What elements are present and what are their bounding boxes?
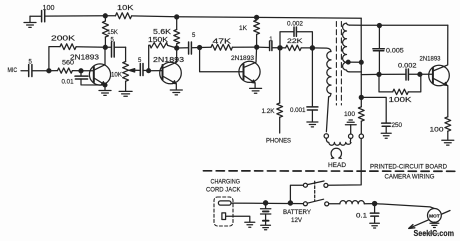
capacitor C5d (Q2 out, 5) — [177, 42, 200, 54]
svg-text:PHONES: PHONES — [266, 138, 292, 145]
node phones junction — [278, 46, 282, 50]
wire base to Q2 — [149, 70, 163, 72]
svg-text:100: 100 — [344, 111, 356, 118]
svg-text:2N1893: 2N1893 — [420, 56, 441, 63]
ground G2 Q1 emitter — [99, 85, 111, 95]
node Q2 collector — [175, 46, 179, 50]
svg-text:100K: 100K — [389, 97, 412, 104]
svg-text:47K: 47K — [213, 39, 232, 46]
jack sleeve lower — [222, 213, 226, 220]
resistor R560 (560) — [49, 68, 81, 73]
node tap at bus — [359, 60, 363, 64]
transformer T1 secondary winding — [343, 23, 350, 72]
wire rail drop to oscillator bus — [360, 18, 362, 107]
inductor L1 motor filter — [340, 201, 364, 204]
capacitor C5b (interstage, 5) — [105, 42, 125, 57]
svg-text:2N1893: 2N1893 — [153, 57, 184, 64]
resistor R15K (15K) collector load Q1 — [102, 16, 108, 48]
resistor R100a (100) bus to head — [358, 107, 364, 134]
wire node A to bus — [361, 73, 379, 75]
svg-text:0.002: 0.002 — [398, 63, 417, 70]
svg-text:CORD JACK: CORD JACK — [206, 186, 241, 193]
capacitor C1 (1) coupling — [257, 41, 280, 51]
svg-text:MIC: MIC — [8, 67, 18, 74]
svg-text:0.1: 0.1 — [356, 212, 368, 219]
capacitor C0.005 (0.005) — [373, 26, 384, 75]
node switch riser tap — [288, 201, 292, 205]
svg-text:560: 560 — [62, 60, 74, 67]
node A oscillator base network — [377, 72, 381, 76]
node 22K output — [310, 46, 314, 50]
wire jack sleeve to ground — [226, 216, 250, 222]
svg-text:HEAD: HEAD — [328, 162, 346, 169]
svg-text:5.6K: 5.6K — [153, 29, 171, 36]
terminal B head right — [349, 134, 353, 138]
wire G1 to C100 — [30, 15, 41, 17]
wire secondary top to oscillator line — [350, 24, 362, 26]
resistor R47K (47K) feedback Q3 — [200, 44, 257, 50]
ground G12 under 0.1 — [370, 223, 380, 228]
head gap symbol omega — [331, 148, 341, 158]
node Q4 base — [418, 72, 422, 76]
capacitor C5c (wiper coupling, 5) — [140, 64, 148, 76]
svg-text:PRINTED-CIRCUIT BOARD: PRINTED-CIRCUIT BOARD — [370, 164, 447, 171]
ground G4 Q2 emitter — [170, 90, 182, 95]
svg-text:250: 250 — [392, 122, 403, 129]
terminal A head left — [324, 134, 328, 138]
resistor R5.6K (5.6K) collector load Q2 — [174, 17, 180, 48]
wire secondary bottom end — [350, 71, 362, 73]
wire 22K output to transformer primary — [312, 48, 331, 52]
capacitor C100 (value 100) — [42, 11, 45, 22]
capacitor C250 (250) — [361, 97, 390, 132]
node 0.005 top — [377, 24, 381, 28]
svg-text:100: 100 — [43, 5, 55, 12]
switch S1b lower pole — [303, 199, 328, 206]
ground G13 motor — [430, 222, 439, 227]
node tap at winding — [346, 60, 350, 64]
ground G8 under 250 — [381, 133, 391, 138]
svg-text:0.002: 0.002 — [287, 21, 303, 28]
resistor R10K (10K) on rail — [116, 13, 132, 19]
jack plug upper — [218, 201, 231, 205]
svg-text:15K: 15K — [107, 29, 118, 36]
switch S1a upper pole — [303, 181, 328, 187]
svg-text:CAMERA WIRING: CAMERA WIRING — [385, 173, 435, 180]
capacitor C5a (MIC coupling, 5) — [29, 65, 49, 77]
resistor R1K (1K) collector load Q3 — [254, 17, 260, 47]
svg-text:MOT: MOT — [429, 213, 440, 219]
wire supply rail — [45, 15, 116, 17]
svg-text:10K: 10K — [117, 5, 134, 12]
svg-text:BATTERY: BATTERY — [283, 209, 312, 216]
transistor Q4 2N1893 — [420, 25, 449, 86]
wire riser to switch — [290, 185, 303, 203]
svg-text:12V: 12V — [291, 217, 303, 224]
capacitor C0.1 (0.1) — [370, 204, 379, 223]
transistor Q1 2N1893 — [81, 47, 111, 85]
capacitor C0.002b (0.002) to Q4 base — [379, 69, 420, 80]
svg-text:200K: 200K — [51, 36, 75, 43]
node Q1 collector — [103, 45, 107, 49]
node 250 branch — [359, 95, 363, 99]
motor MOT — [428, 209, 442, 223]
resistor R100b (100) Q4 emitter — [445, 85, 451, 139]
node Q1 emitter junction — [103, 83, 107, 87]
node rail-Q2 junction — [175, 15, 179, 19]
node rail-Q1 junction — [103, 14, 107, 18]
ground G5 Q3 emitter — [250, 88, 262, 93]
wire node to motor — [375, 204, 434, 209]
svg-text:0.001: 0.001 — [290, 107, 306, 114]
svg-text:1.2K: 1.2K — [262, 108, 276, 115]
wire primary bottom to head terminal — [326, 97, 328, 132]
resistor R22K (22K) — [280, 45, 312, 50]
svg-text:0.005: 0.005 — [386, 47, 404, 54]
jack dashed box CHARGING CORD JACK — [214, 197, 233, 226]
arrow through motor — [409, 211, 450, 229]
ground G10 jack — [245, 222, 255, 227]
svg-text:2N1893: 2N1893 — [70, 55, 99, 62]
wire oscillator top line — [361, 24, 448, 26]
node Q2 base — [147, 69, 151, 73]
transistor Q3 2N1893 — [239, 47, 260, 88]
node Q3 base — [198, 46, 202, 50]
svg-text:CHARGING: CHARGING — [211, 179, 241, 186]
terminal C bus — [359, 134, 363, 138]
transformer T1 primary winding — [327, 52, 331, 97]
svg-text:100: 100 — [430, 127, 445, 134]
ground G1 top-left — [24, 16, 36, 27]
svg-text:2N1893: 2N1893 — [231, 55, 255, 62]
node Q1 base — [79, 69, 83, 73]
svg-text:22K: 22K — [287, 38, 303, 45]
svg-text:0.01: 0.01 — [62, 79, 74, 86]
resistor R150K (150K) feedback Q2 — [149, 43, 177, 71]
wire switch to inductor — [329, 203, 340, 205]
ground G3 pot — [119, 91, 132, 96]
wire switch S1a to head bus — [328, 139, 361, 186]
switch link dashed — [314, 181, 316, 200]
node battery tap — [264, 201, 268, 205]
wire inductor to node — [364, 203, 374, 205]
node Q3 collector — [255, 45, 259, 49]
capacitor C0.001a (0.001) to ground — [307, 48, 318, 122]
svg-text:10K: 10K — [111, 72, 123, 79]
wiper arrow pot — [129, 69, 140, 72]
ground G11 battery — [261, 225, 271, 230]
node rail-Q3 junction — [255, 15, 259, 19]
head coil HEAD — [326, 138, 351, 145]
capacitor C0.002a (0.002) across 22K — [280, 27, 312, 48]
svg-text:150K: 150K — [148, 37, 168, 44]
watermark SeekIC.com — [414, 229, 455, 238]
node MIC junction — [47, 69, 51, 73]
node 0.1 cap — [373, 202, 377, 206]
battery BT1 12V — [261, 203, 271, 225]
potentiometer R10Kpot (10K volume) — [123, 47, 129, 91]
transformer T1 core — [336, 22, 341, 106]
wire rail continues — [132, 16, 362, 18]
ground G6 under 0.001 — [307, 122, 318, 127]
resistor R100K (100K) — [379, 74, 421, 94]
wire secondary tap — [348, 61, 362, 63]
transistor Q2 2N1893 — [160, 48, 182, 90]
resistor R1.2K (1.2K) phones feed — [277, 48, 283, 133]
capacitor C0.01 (0.01) base bypass — [75, 71, 105, 85]
svg-text:1K: 1K — [239, 25, 248, 32]
resistor R200K (200K) feedback — [49, 44, 105, 71]
wire Q3 base path — [200, 48, 244, 72]
ground G7 Q4 emitter — [442, 140, 454, 145]
ground G9 inverted above head terminal — [345, 120, 356, 134]
wire battery line — [231, 202, 304, 205]
wire board separator dashed — [203, 170, 458, 173]
wire MIC input — [21, 70, 28, 72]
